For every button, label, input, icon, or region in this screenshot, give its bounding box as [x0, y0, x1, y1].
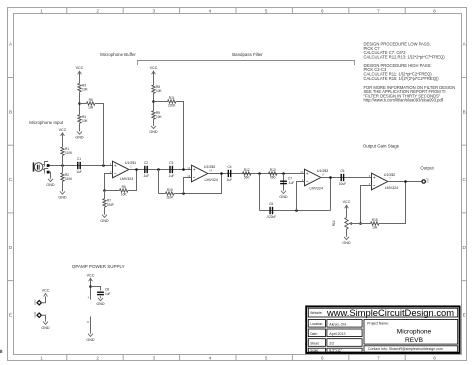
svg-text:C3: C3 — [169, 161, 173, 165]
title block grid — [306, 306, 459, 353]
wire U1G3 inverting input — [297, 182, 305, 211]
svg-text:R13: R13 — [270, 168, 276, 172]
resistor R12 — [243, 172, 251, 175]
wire R4 to gnd — [79, 123, 81, 131]
svg-text:10K: 10K — [121, 192, 128, 196]
wire JP2 to gnd — [41, 315, 45, 321]
svg-text:.1uF: .1uF — [288, 181, 294, 185]
svg-text:OUT: OUT — [426, 177, 430, 183]
power VCC JP1 — [44, 294, 48, 297]
svg-text:10k: 10k — [372, 225, 378, 229]
svg-text:Output: Output — [420, 166, 434, 171]
svg-text:8: 8 — [433, 356, 436, 361]
svg-text:1: 1 — [40, 9, 43, 14]
node R13 C7 junction — [282, 172, 285, 175]
ground C7 — [281, 191, 286, 194]
capacitor C7 — [280, 181, 287, 182]
svg-text:R11: R11 — [169, 96, 175, 100]
op-amp U1G$3 — [305, 169, 321, 186]
svg-text:GND: GND — [342, 241, 351, 245]
wire vcc to R3 — [79, 71, 81, 83]
node U1G1 feedback junction — [103, 189, 106, 192]
svg-text:April 2013: April 2013 — [329, 332, 345, 336]
svg-text:R5: R5 — [89, 98, 93, 102]
svg-text:2/2: 2/2 — [329, 342, 334, 346]
op-amp U1G$4 — [192, 165, 208, 182]
wire R1 to R2 — [62, 155, 64, 173]
svg-text:2: 2 — [96, 356, 99, 361]
ground R7 — [102, 215, 107, 218]
wire R10 to feedback — [174, 174, 222, 194]
svg-text:GND: GND — [33, 312, 37, 318]
wire feedback up — [330, 178, 332, 211]
wire R11 to input node — [176, 102, 184, 170]
svg-text:R15: R15 — [372, 218, 378, 222]
svg-text:Akron, OH: Akron, OH — [329, 322, 346, 326]
potentiometer R14 — [345, 218, 348, 229]
wire JP1 to vcc — [41, 296, 45, 302]
node U1G3 inv junction — [295, 209, 298, 212]
resistor R4 — [78, 115, 81, 123]
resistor R1 — [61, 147, 64, 155]
svg-text:LMV324: LMV324 — [205, 178, 218, 182]
svg-text:LMV324: LMV324 — [385, 186, 398, 190]
ground U1 pin11 — [88, 334, 93, 337]
wire vcc to R8 — [153, 71, 155, 85]
wire R11 left — [154, 101, 168, 103]
resistor R15 — [371, 222, 379, 225]
svg-text:4: 4 — [209, 356, 212, 361]
wire R2 to gnd — [62, 181, 64, 191]
svg-text:U1G$4: U1G$4 — [204, 165, 215, 169]
svg-text:U1G$3: U1G$3 — [317, 169, 328, 173]
node C2 C3 junction — [157, 168, 160, 171]
svg-text:GND: GND — [96, 302, 105, 306]
svg-text:3: 3 — [153, 9, 156, 14]
svg-text:Microphone Input: Microphone Input — [29, 120, 64, 125]
wire U1G3 output — [321, 177, 372, 179]
node U1G4 output junction — [220, 172, 223, 175]
connector JP2 GND — [37, 313, 41, 317]
resistor R8 — [152, 85, 155, 93]
node U1G2 output junction — [404, 180, 407, 183]
node R11 junction — [182, 168, 185, 171]
svg-text:3: 3 — [153, 356, 156, 361]
svg-text:U1G$1: U1G$1 — [125, 161, 136, 165]
wire R9 to gnd — [153, 119, 155, 126]
resistor R10 — [166, 192, 174, 195]
svg-text:REVB: REVB — [405, 337, 424, 344]
svg-text:Microphone: Microphone — [397, 329, 432, 336]
resistor R9 — [152, 111, 155, 119]
svg-text:10K: 10K — [156, 115, 163, 119]
svg-text:10K: 10K — [82, 119, 89, 123]
wire R14 to gnd — [346, 229, 348, 237]
resistor R5 — [87, 102, 95, 105]
wire C7 down — [283, 174, 285, 191]
resistor R7 — [103, 199, 106, 207]
power VCC U1 pin4 — [89, 278, 93, 281]
svg-text:VCC: VCC — [150, 66, 158, 70]
resistor R2 — [61, 173, 64, 181]
svg-text:VCC: VCC — [59, 128, 67, 132]
svg-text:LMV324: LMV324 — [120, 177, 133, 181]
capacitor C6 — [269, 207, 270, 214]
wire R6 to output — [128, 170, 137, 191]
power VCC R14 — [345, 205, 349, 208]
svg-text:.1uF: .1uF — [168, 174, 174, 178]
ground R2 — [60, 191, 65, 194]
svg-text:GND: GND — [58, 196, 67, 200]
wire R7 top — [104, 191, 106, 199]
svg-text:CALCULATE R12,R13: 1/(2*2*pi*C: CALCULATE R12,R13: 1/(2*2*pi*C7*FREQ) — [364, 54, 446, 59]
svg-text:2: 2 — [96, 9, 99, 14]
svg-text:VCC: VCC — [76, 66, 84, 70]
op-amp U1G$2 — [372, 173, 388, 190]
node R3 R4 junction — [78, 102, 81, 105]
wire lowpass bottom rail — [260, 210, 331, 212]
ground R14 — [344, 237, 349, 240]
capacitor C1 — [77, 162, 78, 169]
ground R4 — [77, 131, 82, 134]
wire C8 to gnd — [100, 296, 102, 298]
svg-text:4: 4 — [209, 9, 212, 14]
capacitor C3 — [169, 166, 170, 173]
svg-text:8: 8 — [433, 9, 436, 14]
svg-text:CALCULATE R15: 1/(2*(2*pi*C2*F: CALCULATE R15: 1/(2*(2*pi*C2*FREQ)) — [364, 76, 440, 81]
svg-text:C4: C4 — [227, 165, 231, 169]
svg-text:R12: R12 — [244, 168, 250, 172]
svg-text:GND: GND — [149, 130, 158, 134]
svg-text:B: B — [9, 109, 12, 114]
svg-text:.1uF: .1uF — [143, 174, 149, 178]
svg-text:Location:: Location: — [310, 322, 323, 326]
wire mic signal — [50, 165, 113, 167]
resistor R6 — [120, 189, 128, 192]
svg-text:E: E — [9, 313, 12, 318]
svg-text:110K: 110K — [65, 151, 73, 155]
wire vcc to R14 — [346, 205, 348, 217]
svg-text:GND: GND — [86, 338, 95, 342]
svg-text:10uF: 10uF — [339, 182, 346, 186]
connector Output pad — [422, 180, 425, 183]
wire R10 left — [159, 193, 166, 195]
svg-text:U1G$2: U1G$2 — [384, 173, 395, 177]
svg-text:6: 6 — [321, 9, 324, 14]
svg-text:VCC: VCC — [343, 200, 351, 204]
svg-text:Scale:: Scale: — [310, 348, 319, 352]
svg-text:http://www.ti.com/lit/an/sloa0: http://www.ti.com/lit/an/sloa093/sloa093… — [364, 98, 444, 103]
bandpass bracket — [138, 61, 355, 66]
power VCC R1 — [61, 133, 65, 136]
svg-text:C5: C5 — [340, 169, 344, 173]
capacitor C8 — [97, 292, 104, 293]
svg-text:GND: GND — [41, 326, 50, 330]
svg-text:VCC: VCC — [33, 299, 37, 305]
resistor R13 — [269, 172, 277, 175]
svg-text:10K: 10K — [82, 88, 89, 92]
svg-text:Contact Info: ShawnR@simpleci: Contact Info: ShawnR@simplecircuitdesign… — [368, 347, 443, 351]
wire C8 branch — [91, 287, 101, 291]
svg-text:10k: 10k — [88, 105, 94, 109]
svg-text:R6: R6 — [122, 185, 126, 189]
svg-text:6: 6 — [321, 356, 324, 361]
ground C8 — [98, 298, 103, 301]
svg-text:Website:: Website: — [310, 311, 322, 315]
wire R3 to R4 — [79, 92, 81, 115]
svg-text:7: 7 — [377, 356, 380, 361]
op-amp U1G$1 — [113, 161, 129, 178]
frame ticks — [66, 8, 68, 14]
svg-text:1uF: 1uF — [105, 292, 111, 296]
svg-text:GND: GND — [100, 219, 109, 223]
svg-text:Microphone Buffer: Microphone Buffer — [100, 52, 136, 57]
wire vcc to R1 — [62, 133, 64, 147]
svg-text:560: 560 — [270, 175, 276, 179]
resistor R3 — [78, 83, 81, 91]
svg-text:10K: 10K — [156, 89, 163, 93]
capacitor C2 — [144, 166, 145, 173]
node buffer input junction — [102, 164, 105, 167]
svg-text:1uF: 1uF — [227, 178, 233, 182]
svg-text:Output Gain Stage: Output Gain Stage — [363, 144, 400, 149]
node mic bias junction — [61, 164, 64, 167]
ground JP2 — [43, 322, 48, 325]
svg-text:220K: 220K — [168, 103, 176, 107]
svg-text:560: 560 — [244, 175, 250, 179]
svg-text:www.SimpleCircuitDesign.com: www.SimpleCircuitDesign.com — [326, 307, 454, 318]
svg-text:Project Name:: Project Name: — [367, 322, 389, 326]
power VCC R8 — [152, 71, 156, 74]
node U1G3 output junction — [329, 176, 332, 179]
svg-text:1: 1 — [40, 356, 43, 361]
svg-text:GND: GND — [46, 183, 55, 187]
svg-text:LMV324: LMV324 — [310, 187, 323, 191]
wire U1G4 output — [208, 173, 305, 175]
node U1G4 inv junction — [182, 192, 185, 195]
svg-text:OPAMP POWER SUPPLY: OPAMP POWER SUPPLY — [72, 264, 125, 269]
svg-text:7: 7 — [377, 9, 380, 14]
svg-text:Bandpass Filter: Bandpass Filter — [232, 52, 263, 57]
resistor R11 — [168, 100, 176, 103]
wire R5 left — [80, 103, 87, 105]
connector JP1 VCC — [37, 301, 41, 305]
svg-text:VCC: VCC — [87, 273, 95, 277]
wire mic ground — [50, 172, 51, 179]
svg-text:1uF: 1uF — [76, 170, 82, 174]
svg-text:C2: C2 — [144, 161, 148, 165]
capacitor C4 — [228, 170, 229, 177]
svg-text:.022uF: .022uF — [266, 215, 276, 219]
svg-text:R14: R14 — [332, 220, 336, 226]
ground R9 — [151, 126, 156, 129]
wire U1G4 inverting input — [184, 178, 192, 194]
microphone MIC1 — [33, 162, 35, 171]
wire R15 left — [361, 223, 371, 225]
wire R5 to input node — [95, 104, 104, 166]
svg-text:110K: 110K — [166, 195, 174, 199]
node R8 R9 junction — [152, 100, 155, 103]
svg-text:5: 5 — [265, 9, 268, 14]
svg-text:GND: GND — [279, 195, 288, 199]
svg-text:Date:: Date: — [310, 332, 318, 336]
wire lowpass node down — [259, 174, 261, 211]
wire U1G2 inverting input — [361, 186, 372, 224]
wire U1 pin11 — [90, 317, 92, 334]
svg-text:Sheet:: Sheet: — [310, 341, 319, 345]
svg-text:B: B — [463, 109, 466, 114]
connector J1 — [43, 164, 45, 166]
wire U1G2 output — [388, 181, 422, 183]
svg-text:GND: GND — [75, 136, 84, 140]
wire R7 to gnd — [104, 207, 106, 215]
svg-text:C1: C1 — [77, 157, 81, 161]
wire U1G1 inverting input — [105, 174, 113, 191]
svg-text:R10: R10 — [167, 188, 173, 192]
node pin4 C8 junction — [89, 285, 92, 288]
wire R8 to R9 — [153, 93, 155, 110]
scan artifact — [0, 350, 2, 353]
wire vcc pin4 — [90, 278, 92, 299]
node R15 junction — [359, 222, 362, 225]
svg-text:5: 5 — [265, 356, 268, 361]
svg-text:8.5"x11": 8.5"x11" — [329, 348, 342, 352]
capacitor C5 — [341, 174, 342, 181]
svg-text:C6: C6 — [269, 202, 273, 206]
wire R6 left — [105, 190, 120, 192]
node U1G1 output junction — [135, 168, 138, 171]
ground mic — [48, 179, 53, 182]
svg-text:110K: 110K — [65, 177, 73, 181]
svg-text:DNP: DNP — [107, 203, 114, 207]
svg-text:E: E — [463, 313, 466, 318]
node R12 R13 junction — [258, 172, 261, 175]
wire U1G1 output — [129, 169, 192, 171]
wire C2C3 node down — [158, 170, 160, 194]
svg-text:VCC: VCC — [42, 289, 50, 293]
wire R15 to output — [379, 182, 406, 224]
power VCC R3 — [78, 71, 82, 74]
